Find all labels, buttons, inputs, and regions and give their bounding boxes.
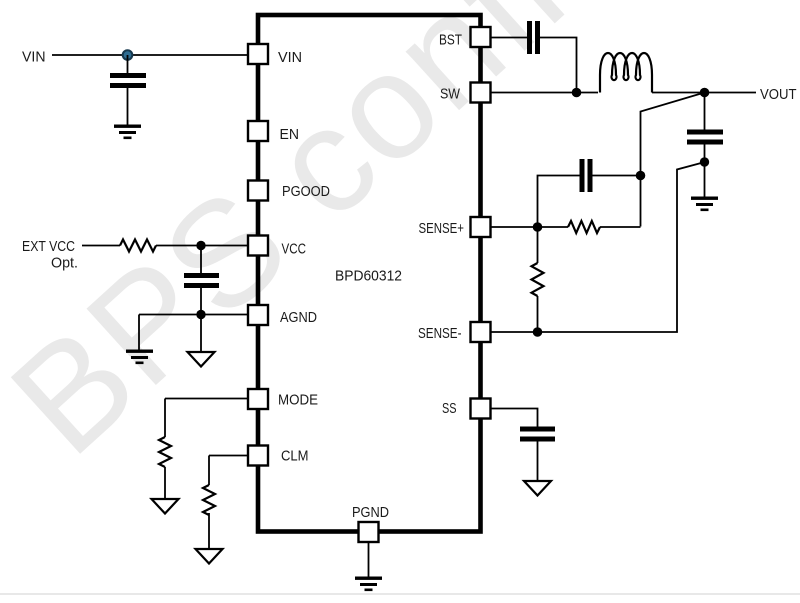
svg-text:EXT VCC: EXT VCC [22,238,75,255]
IC U1 BPD60312 body [258,15,481,532]
wire CLM [209,455,248,457]
ground (triangle) AGND [188,352,215,367]
capacitor C_IN [110,73,146,88]
wire SW [491,92,598,94]
resistor R_DIV [532,263,544,296]
svg-text:PGND: PGND [352,504,389,521]
wire MODE drop [164,399,166,438]
svg-text:SS: SS [442,400,457,417]
wire divider top [537,227,539,263]
wire C_BST to SW node [540,38,577,93]
wire SENSE+ [491,226,568,228]
pin SS [471,399,491,419]
node VOUT junction [700,88,710,98]
svg-text:BPS confidential: BPS confidential [0,0,800,486]
pin CLM [248,446,268,466]
ground (triangle) MODE [152,499,179,514]
wire C_SS to ground [537,442,539,482]
pin PGOOD [248,181,268,201]
pin SENSE- [471,322,491,342]
pin MODE [248,389,268,409]
capacitor C_SENSE [580,159,593,192]
svg-text:SENSE-: SENSE- [418,325,462,342]
wire VIN cap bottom stem [127,88,129,125]
wire BST to cap [491,37,527,39]
node VCC junction [196,241,205,250]
capacitor C_SS [520,427,555,442]
svg-text:CLM: CLM [281,448,309,465]
pin PGND [359,522,379,542]
inductor L1 [600,53,652,92]
svg-text:AGND: AGND [280,309,317,326]
ground (earth) AGND [126,350,153,365]
svg-text:BPD60312: BPD60312 [335,268,402,285]
capacitor C_VCC [184,273,219,288]
page footer line [0,593,800,595]
ground (earth) PGND [355,577,382,592]
wire C_SENSE right stem [592,175,641,177]
ground (earth) under C_OUT [691,197,718,212]
capacitor C_BST [527,21,540,54]
wire AGND triangle stem [200,315,202,353]
node AGND junction [196,310,205,319]
wire VCC cap bottom stem [200,288,202,315]
pin EN [248,121,268,141]
wire R_SENSE to feedback [600,226,641,228]
wire PGND stem [368,542,370,577]
pin AGND [248,305,268,325]
wire EXT VCC to resistor [82,245,120,247]
svg-text:EN: EN [280,126,300,143]
node SENSE- junction [533,327,543,337]
wire VOUT cap stem [704,93,706,130]
node C_OUT bottom junction [700,157,709,166]
wire VIN cap top stem [127,55,129,73]
svg-text:VCC: VCC [282,241,307,258]
ground (triangle) SS [524,481,551,496]
svg-text:SW: SW [440,86,461,103]
resistor R_SENSE [568,221,600,233]
svg-text:MODE: MODE [278,392,318,409]
pin VCC [248,236,268,256]
wire SS [491,409,538,427]
svg-text:VOUT: VOUT [760,86,797,103]
node VIN (blue junction) [123,50,133,60]
wire AGND left drop [138,315,140,350]
wire R_CLM to ground [208,513,210,549]
resistor R_CLM [203,485,215,515]
resistor R_VCC (series) [120,240,156,252]
wire R_MODE to ground [164,467,166,499]
node feedback junction [636,171,646,181]
ground (earth) under C_IN [114,125,141,140]
pin SW [471,83,491,103]
ground (triangle) CLM [196,549,223,564]
svg-text:VIN: VIN [22,49,46,66]
wire L1 to VOUT [652,92,756,94]
wire SENSE- [491,163,703,333]
pin BST [471,27,491,47]
svg-text:SENSE+: SENSE+ [419,220,465,237]
pin VIN [248,44,268,64]
capacitor C_OUT [687,130,723,145]
wire VIN input [52,54,248,56]
pin SENSE+ [471,217,491,237]
svg-text:PGOOD: PGOOD [282,183,330,200]
resistor R_MODE [159,437,171,467]
wire C_OUT bottom stem [704,145,706,197]
wire AGND net [139,314,248,316]
node SW junction [572,88,582,98]
wire VCC cap top stem [200,246,202,274]
wire C_SENSE left stem [538,176,580,228]
wire VOUT feedback diagonal [641,93,705,227]
wire MODE [165,398,248,400]
svg-text:BST: BST [439,32,462,49]
wire divider bottom [537,296,539,332]
svg-text:VIN: VIN [278,49,302,66]
wire resistor to VCC pin [156,245,248,247]
svg-text:Opt.: Opt. [51,255,78,272]
node SENSE+ junction [533,222,543,232]
wire CLM drop [208,456,210,486]
